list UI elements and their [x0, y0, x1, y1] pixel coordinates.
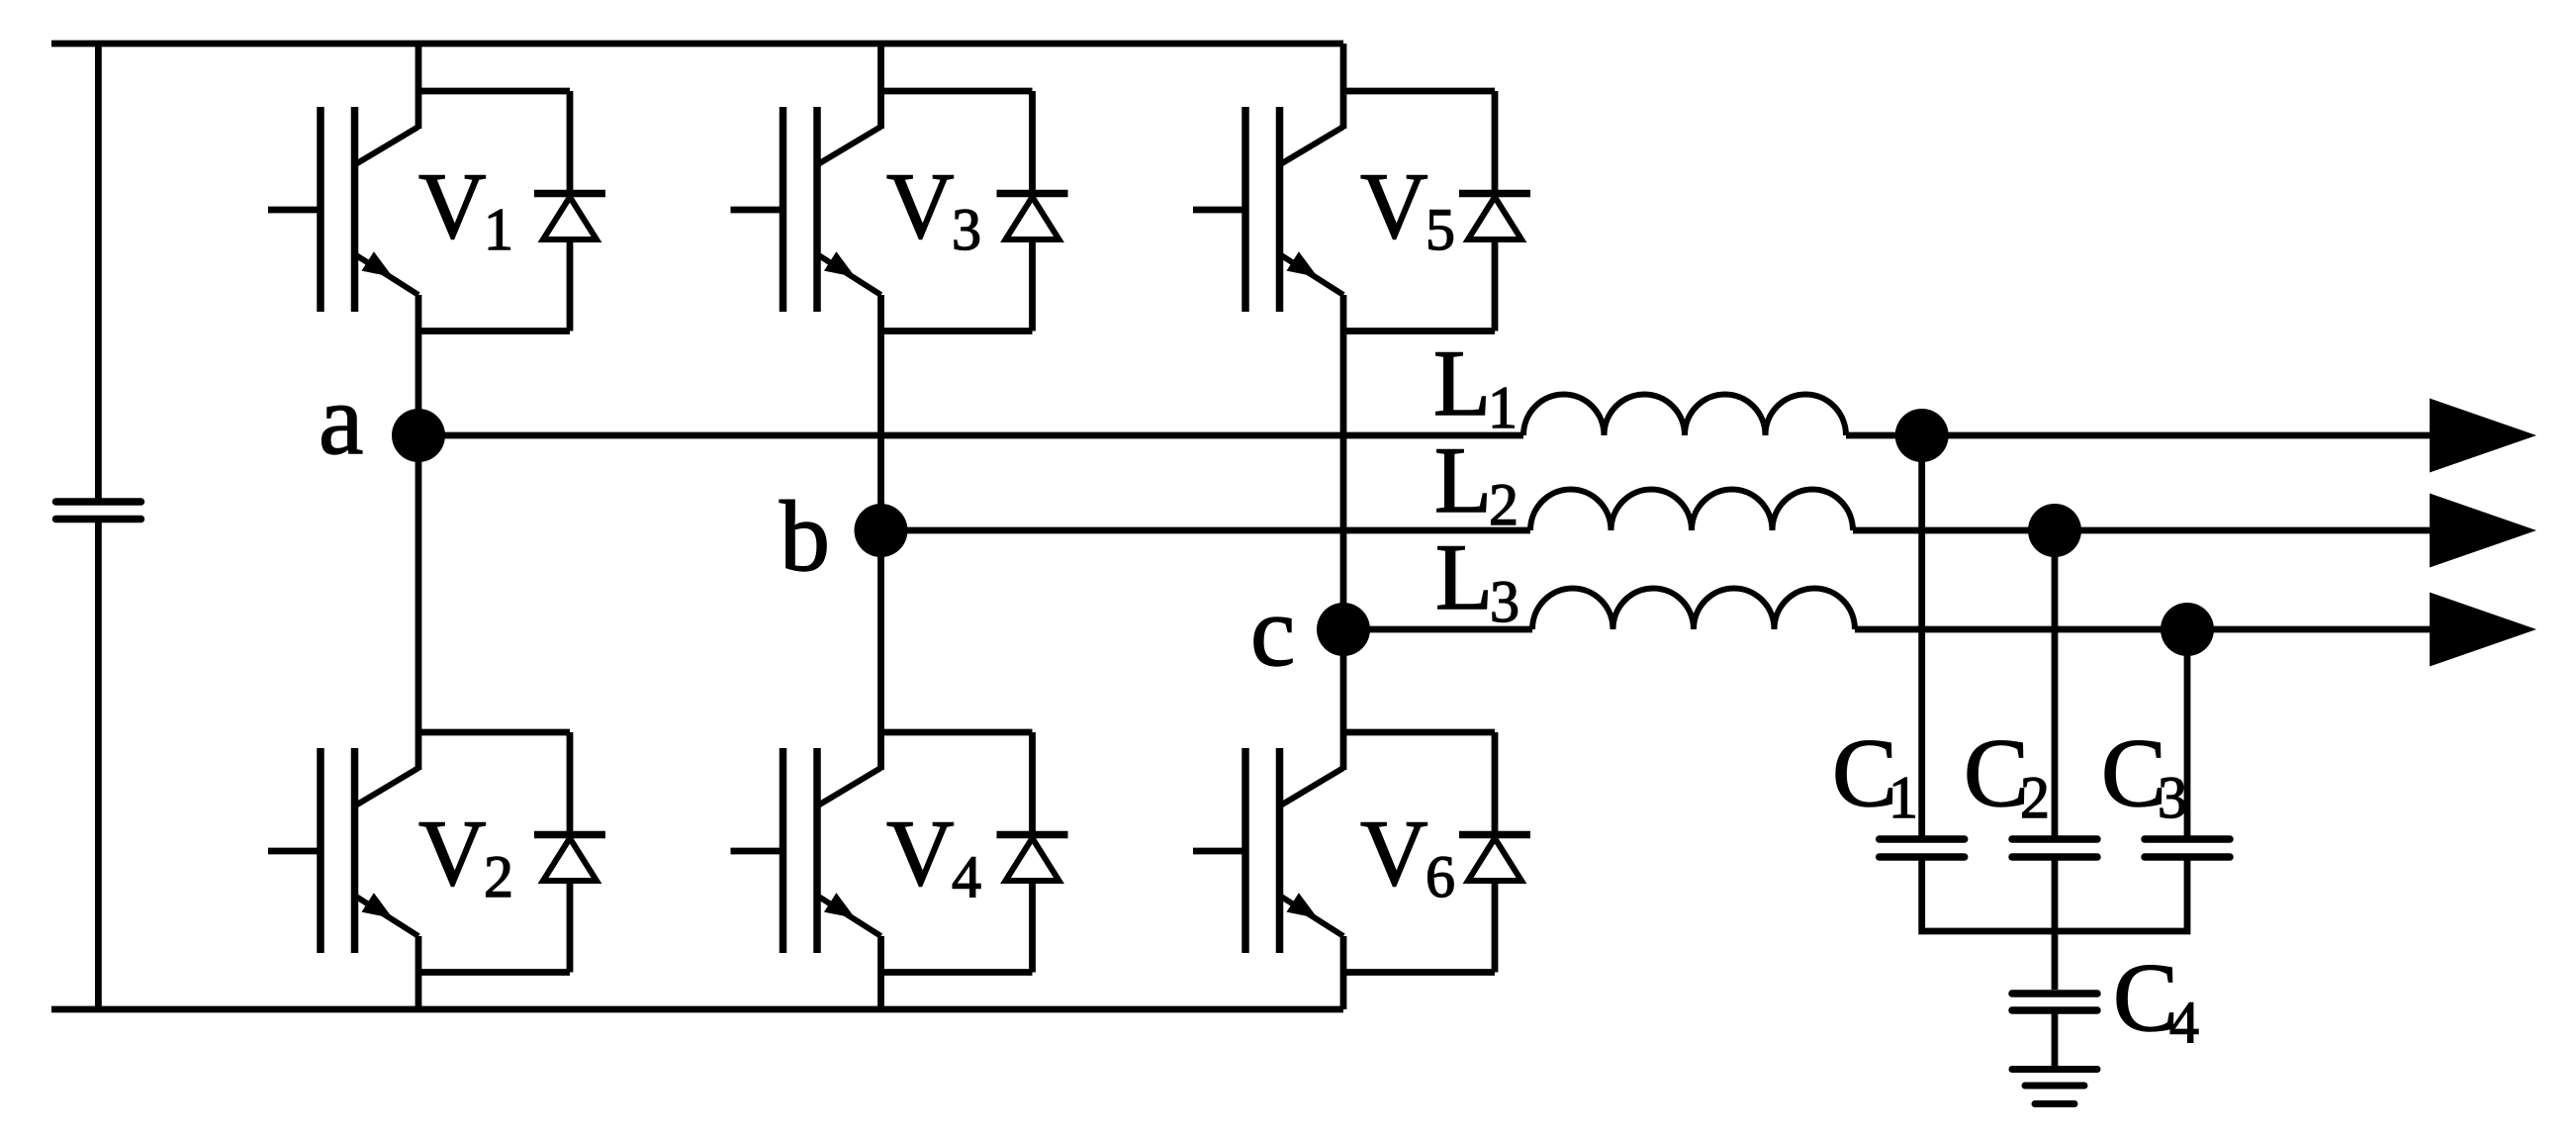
- node b (phase output): [855, 504, 908, 557]
- wire: phase c to inductor L3: [1343, 626, 1532, 633]
- svg-text:2: 2: [1489, 472, 1518, 537]
- label C2: [1964, 719, 2050, 830]
- label L1: [1433, 331, 1518, 440]
- capacitor C3: [2145, 839, 2230, 857]
- wire: phase b to inductor L2: [881, 527, 1531, 534]
- diode D4 (anti-parallel with V4): [881, 732, 1068, 973]
- label C4: [2113, 944, 2199, 1055]
- transistor V2 (IGBT, lower): [268, 435, 418, 1009]
- diode D6 (anti-parallel with V6): [1343, 732, 1530, 973]
- svg-text:b: b: [780, 481, 830, 593]
- inductor L1: [1523, 395, 1846, 436]
- svg-text:c: c: [1250, 576, 1295, 688]
- wire: DC-link left bus upper segment: [95, 44, 102, 499]
- wire: node to capacitor C1: [1918, 435, 1925, 836]
- svg-text:1: 1: [484, 197, 513, 262]
- wire: phase a to inductor L1: [418, 432, 1523, 439]
- label V5: [1360, 153, 1455, 262]
- node a (phase output): [392, 409, 445, 462]
- wire: node to capacitor C3: [2184, 629, 2191, 836]
- svg-text:3: 3: [952, 197, 981, 262]
- wire: positive DC rail (top): [51, 41, 1343, 47]
- label V1: [418, 153, 513, 262]
- capacitor C1: [1880, 839, 1965, 857]
- transistor V4 (IGBT, lower): [731, 530, 881, 1009]
- svg-text:L: L: [1434, 427, 1492, 532]
- wire: inductor L2 to output arrow (row b): [1853, 527, 2430, 534]
- svg-text:V: V: [886, 153, 955, 258]
- label V2: [418, 801, 513, 909]
- junction node after L3: [2161, 603, 2214, 656]
- svg-text:3: 3: [1490, 569, 1519, 634]
- output arrow phase c: [2430, 593, 2536, 667]
- label C1: [1832, 719, 1918, 830]
- transistor V6 (IGBT, lower): [1193, 629, 1343, 1009]
- svg-text:2: 2: [2020, 765, 2050, 830]
- label V4: [886, 801, 981, 909]
- svg-text:V: V: [418, 153, 487, 258]
- svg-text:a: a: [319, 364, 363, 476]
- svg-text:5: 5: [1426, 197, 1455, 262]
- svg-text:L: L: [1435, 524, 1493, 629]
- svg-text:1: 1: [1888, 765, 1918, 830]
- svg-text:L: L: [1433, 331, 1491, 435]
- svg-text:V: V: [418, 801, 487, 905]
- label V3: [886, 153, 981, 262]
- transistor V3 (IGBT, upper): [731, 44, 881, 530]
- capacitor: DC-link capacitor: [56, 502, 141, 520]
- svg-text:V: V: [1360, 801, 1428, 905]
- svg-text:1: 1: [1488, 375, 1518, 440]
- inductor L3: [1532, 588, 1855, 629]
- svg-text:4: 4: [2169, 990, 2199, 1055]
- wire: inductor L3 to output arrow (row c): [1855, 626, 2430, 633]
- wire: capacitor common bus (C1, C3 legs + horizontal): [1922, 861, 2187, 932]
- svg-text:4: 4: [952, 844, 981, 909]
- inductor L2: [1530, 489, 1853, 530]
- wire: node to capacitor C2: [2052, 530, 2059, 836]
- diode D3 (anti-parallel with V3): [881, 91, 1068, 332]
- label L3: [1435, 524, 1519, 634]
- label V6: [1360, 801, 1455, 909]
- wire: negative DC rail (bottom): [51, 1006, 1343, 1013]
- wire: C2 down through bus to C4: [2052, 861, 2059, 991]
- transistor V5 (IGBT, upper): [1193, 44, 1343, 629]
- output arrow phase a: [2430, 399, 2536, 473]
- junction node after L1: [1895, 409, 1949, 462]
- diode D2 (anti-parallel with V2): [418, 732, 605, 973]
- svg-text:2: 2: [484, 844, 513, 909]
- wire: C4 to ground: [2052, 1014, 2059, 1067]
- ground: [2012, 1070, 2097, 1104]
- svg-text:V: V: [886, 801, 955, 905]
- svg-text:6: 6: [1426, 844, 1455, 909]
- svg-text:3: 3: [2158, 765, 2187, 830]
- diode D1 (anti-parallel with V1): [418, 91, 605, 332]
- junction node after L2: [2028, 504, 2081, 557]
- node c (phase output): [1317, 603, 1370, 656]
- transistor V1 (IGBT, upper): [268, 44, 418, 435]
- capacitor C2: [2012, 839, 2097, 857]
- wire: DC-link left bus lower segment: [95, 522, 102, 1009]
- diode D5 (anti-parallel with V5): [1343, 91, 1530, 332]
- output arrow phase b: [2430, 494, 2536, 568]
- capacitor C4: [2012, 994, 2097, 1010]
- label L2: [1434, 427, 1518, 537]
- label C3: [2101, 719, 2187, 830]
- wire: inductor L1 to output arrow (row a): [1846, 432, 2430, 439]
- svg-text:V: V: [1360, 153, 1428, 258]
